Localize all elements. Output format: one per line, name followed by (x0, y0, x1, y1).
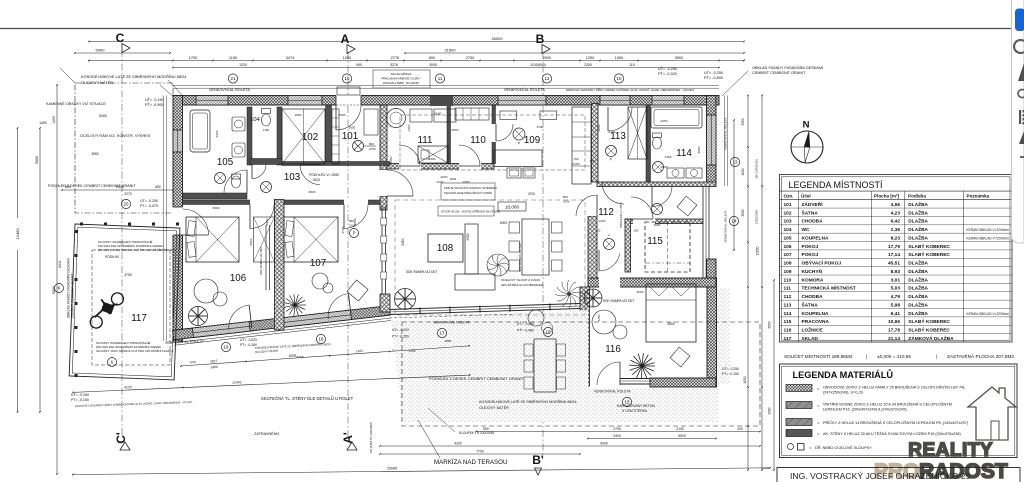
svg-text:WC: WC (802, 227, 811, 233)
svg-text:PŤ= -0,900: PŤ= -0,900 (145, 102, 163, 107)
svg-text:PODHLED Z DESEK CEMBRIT CEMBON: PODHLED Z DESEK CEMBRIT CEMBONIT GRANIT (429, 376, 525, 381)
svg-text:|: | (866, 354, 867, 359)
svg-text:1100(900): 1100(900) (530, 63, 546, 67)
svg-text:17,79: 17,79 (888, 244, 900, 250)
svg-text:3600: 3600 (213, 206, 220, 210)
svg-text:14: 14 (732, 219, 737, 224)
svg-text:106: 106 (784, 244, 792, 250)
svg-text:117: 117 (131, 313, 147, 324)
svg-text:N: N (803, 120, 810, 131)
svg-text:150: 150 (589, 159, 594, 163)
svg-text:115: 115 (784, 319, 792, 325)
svg-text:PODHLED V= 2550: PODHLED V= 2550 (309, 173, 339, 177)
svg-text:2400: 2400 (210, 365, 218, 370)
svg-text:1022: 1022 (189, 360, 196, 364)
svg-text:UT= -0,250: UT= -0,250 (704, 71, 723, 75)
svg-text:OCELOVÝ RÁM VIZ. KONSTR. VÝKRE: OCELOVÝ RÁM VIZ. KONSTR. VÝKRES (80, 134, 151, 138)
svg-text:A: A (341, 32, 350, 46)
svg-text:110: 110 (470, 135, 486, 146)
svg-text:P: P (610, 158, 612, 162)
svg-text:4200: 4200 (454, 442, 462, 446)
svg-text:UŤ= -0,020: UŤ= -0,020 (517, 321, 534, 326)
svg-text:8000: 8000 (500, 221, 507, 225)
svg-text:117: 117 (784, 336, 792, 342)
svg-text:DOSÁVKA KRBU, VIZ 200/50: DOSÁVKA KRBU, VIZ 200/50 (383, 81, 419, 85)
svg-text:25500: 25500 (387, 466, 397, 470)
svg-text:1100: 1100 (263, 128, 269, 132)
svg-text:108: 108 (437, 243, 454, 254)
svg-text:1250: 1250 (586, 56, 594, 60)
svg-text:OCELOVÝ SLOUP Z 2U100: OCELOVÝ SLOUP Z 2U100 (501, 278, 540, 282)
svg-text:200: 200 (737, 427, 743, 431)
svg-text:2000: 2000 (441, 175, 448, 179)
svg-text:1300: 1300 (407, 124, 411, 131)
svg-text:SLOUPKY JSOU NOSNOU KCÍ PRO OP: SLOUPKY JSOU NOSNOU KCÍ PRO OPLÁŠTĚNÍ FA… (96, 348, 174, 353)
svg-text:2350: 2350 (741, 118, 745, 125)
svg-text:2250: 2250 (661, 119, 668, 123)
svg-text:OBKLAD FASÁDY FASÁDNÍMI DESKAM: OBKLAD FASÁDY FASÁDNÍMI DESKAMI (752, 66, 823, 70)
svg-text:800: 800 (429, 56, 435, 60)
svg-text:21500: 21500 (444, 48, 456, 53)
svg-text:UŤ= -0,150: UŤ= -0,150 (145, 97, 164, 102)
svg-text:B': B' (532, 453, 544, 467)
svg-text:5450: 5450 (401, 238, 405, 246)
svg-text:2200: 2200 (584, 63, 592, 67)
svg-text:112: 112 (598, 207, 614, 218)
svg-text:2650: 2650 (349, 126, 356, 130)
svg-text:2750: 2750 (466, 56, 474, 60)
svg-text:SLABÝ KOBEREC: SLABÝ KOBEREC (908, 318, 950, 325)
svg-text:104: 104 (250, 117, 260, 123)
svg-text:K: K (111, 360, 114, 365)
svg-text:SLOUPKY JSOU NOSNOU KCÍ PRO OP: SLOUPKY JSOU NOSNOU KCÍ PRO OPLÁŠTĚNÍ FA… (98, 247, 176, 252)
svg-text:105: 105 (784, 235, 792, 241)
svg-text:±0,000: ±0,000 (505, 205, 519, 210)
svg-text:SKUTEČNÁ TL. STĚNY DLE DETAILŮ: SKUTEČNÁ TL. STĚNY DLE DETAILŮ U ROLET (261, 396, 354, 401)
svg-text:SLABÝ KOBEREC: SLABÝ KOBEREC (908, 243, 950, 250)
svg-text:1400: 1400 (356, 349, 363, 353)
svg-text:LEPIDLEM P15, (200x497x249) A: LEPIDLEM P15, (200x497x249) A (240x372x2… (823, 408, 907, 412)
svg-text:2700: 2700 (369, 147, 376, 151)
svg-text:SDK RAMPA VIZ DET: SDK RAMPA VIZ DET (406, 270, 438, 274)
svg-text:111: 111 (418, 135, 433, 146)
svg-text:17,78: 17,78 (888, 328, 900, 334)
svg-text:3000: 3000 (654, 223, 661, 227)
svg-text:4,56: 4,56 (891, 202, 901, 208)
svg-text:PŤ= -0,320: PŤ= -0,320 (658, 71, 677, 76)
svg-text:3950: 3950 (91, 152, 99, 156)
svg-text:2500: 2500 (116, 185, 124, 189)
svg-text:1050: 1050 (615, 56, 623, 60)
svg-text:4250: 4250 (597, 314, 601, 321)
svg-text:3700: 3700 (537, 125, 544, 129)
svg-text:4050: 4050 (743, 376, 747, 383)
svg-text:3000: 3000 (741, 209, 745, 216)
svg-text:SDK RAMPA VIZ DET: SDK RAMPA VIZ DET (518, 242, 522, 272)
svg-text:3474: 3474 (286, 56, 294, 60)
svg-text:103: 103 (284, 172, 301, 183)
svg-text:SOUČET MÍSTNOSTÍ 189,96M2: SOUČET MÍSTNOSTÍ 189,96M2 (784, 353, 853, 359)
svg-text:SLABÝ KOBEREC: SLABÝ KOBEREC (908, 327, 950, 334)
svg-text:4150: 4150 (434, 112, 442, 116)
svg-text:SLABÝ KOBEREC: SLABÝ KOBEREC (908, 251, 950, 258)
svg-text:OK RÁM TR 100/100/5: OK RÁM TR 100/100/5 (369, 422, 373, 453)
svg-text:490: 490 (356, 63, 362, 67)
svg-text:3276: 3276 (390, 63, 398, 67)
svg-text:4,79: 4,79 (891, 294, 901, 300)
svg-text:8,93: 8,93 (891, 269, 901, 275)
svg-text:DŘ. NEBO OCELOVÉ SLOUPKY: DŘ. NEBO OCELOVÉ SLOUPKY (815, 445, 872, 450)
svg-text:1300: 1300 (768, 407, 772, 414)
svg-text:1800: 1800 (295, 113, 302, 117)
svg-text:1450: 1450 (665, 155, 672, 159)
svg-text:2400: 2400 (429, 157, 436, 161)
svg-text:12460: 12460 (15, 228, 20, 240)
svg-text:2100: 2100 (676, 427, 684, 431)
svg-text:Poznámka: Poznámka (967, 193, 990, 198)
svg-text:KOSODÉLNÍKOVÉ LATĚ ZE SIBIŘSKÉ: KOSODÉLNÍKOVÉ LATĚ ZE SIBIŘSKÉHO MODŘÍNU… (479, 399, 577, 404)
svg-text:CEMBRIT CEMBONIT GRANIT: CEMBRIT CEMBONIT GRANIT (71, 273, 75, 318)
svg-text:2650: 2650 (452, 128, 459, 132)
svg-text:12443: 12443 (232, 380, 242, 384)
svg-text:1050: 1050 (463, 180, 470, 184)
svg-text:KERAM.OBKLAD V=2200mm: KERAM.OBKLAD V=2200mm (967, 236, 1010, 240)
svg-text:CHODBA: CHODBA (802, 294, 824, 300)
svg-text:1350: 1350 (599, 219, 606, 223)
svg-text:12: 12 (545, 76, 550, 81)
svg-text:OLEJOVÝ NÁTĚR: OLEJOVÝ NÁTĚR (479, 405, 509, 410)
svg-text:1700: 1700 (189, 56, 197, 60)
svg-text:VENKOVNÍ AL ROLETA: VENKOVNÍ AL ROLETA (209, 88, 250, 92)
svg-text:AK. STĚNY Z HELUZ 20 AKU TĚŽKÁ: AK. STĚNY Z HELUZ 20 AKU TĚŽKÁ S MALTOVÝ… (823, 431, 961, 436)
svg-text:17,14: 17,14 (888, 252, 900, 258)
svg-text:VENKOVNÍ AL ROLETA: VENKOVNÍ AL ROLETA (724, 118, 728, 150)
svg-text:P: P (353, 231, 356, 236)
svg-text:113: 113 (610, 131, 626, 142)
svg-text:1250: 1250 (343, 56, 351, 60)
svg-text:107: 107 (310, 258, 326, 269)
svg-text:UT= -0,020: UT= -0,020 (392, 328, 409, 332)
svg-text:KOUPELNA: KOUPELNA (802, 235, 829, 241)
svg-text:K: K (58, 286, 61, 291)
svg-text:3500: 3500 (675, 56, 683, 60)
svg-text:114: 114 (676, 148, 692, 159)
svg-text:116: 116 (784, 328, 792, 334)
svg-text:2827: 2827 (210, 359, 218, 364)
svg-text:101: 101 (342, 131, 358, 142)
svg-text:VENKOVNÍ AL ROLETA: VENKOVNÍ AL ROLETA (594, 390, 631, 394)
svg-text:18: 18 (319, 337, 324, 342)
svg-text:Ozn.: Ozn. (784, 193, 794, 198)
svg-text:4554: 4554 (249, 238, 253, 245)
svg-text:UT= -0,250: UT= -0,250 (140, 199, 158, 203)
svg-text:KERAM.OBKLAD V=2200mm: KERAM.OBKLAD V=2200mm (967, 228, 1010, 232)
svg-text:LEGENDA MÍSTNOSTÍ: LEGENDA MÍSTNOSTÍ (789, 180, 884, 190)
svg-text:1200: 1200 (437, 180, 444, 184)
svg-text:16: 16 (546, 330, 551, 335)
svg-text:ING. VOSTRACKÝ JOSEF OHRAZENI: ING. VOSTRACKÝ JOSEF OHRAZENIČKO 25 (790, 471, 971, 481)
svg-text:5400: 5400 (99, 114, 107, 118)
svg-text:PT= -0,470: PT= -0,470 (140, 204, 158, 208)
svg-text:4500: 4500 (667, 322, 675, 326)
svg-text:113: 113 (784, 302, 792, 308)
svg-text:101: 101 (784, 202, 792, 208)
svg-text:114: 114 (784, 311, 792, 317)
svg-text:|: | (936, 354, 937, 359)
svg-text:POKOJ: POKOJ (802, 252, 819, 258)
svg-text:2776: 2776 (391, 56, 399, 60)
svg-text:102: 102 (302, 132, 318, 143)
svg-text:17: 17 (440, 331, 445, 336)
svg-text:UT= -0,250: UT= -0,250 (71, 393, 89, 397)
svg-text:10,65: 10,65 (888, 319, 900, 325)
svg-text:CEMBRIT CEMBONIT GRANIT: CEMBRIT CEMBONIT GRANIT (752, 71, 806, 75)
svg-text:109: 109 (784, 269, 792, 275)
svg-text:2270: 2270 (124, 192, 132, 196)
svg-text:2700: 2700 (613, 427, 621, 431)
svg-text:8258: 8258 (289, 353, 297, 358)
svg-text:5450: 5450 (389, 156, 393, 163)
svg-text:9300: 9300 (35, 156, 39, 164)
svg-text:5934: 5934 (265, 218, 269, 225)
svg-text:106: 106 (230, 273, 247, 284)
svg-text:OPLÁŠTĚNÍ ALUCOBONDEM: OPLÁŠTĚNÍ ALUCOBONDEM (501, 282, 544, 287)
svg-text:850: 850 (65, 185, 71, 189)
svg-text:10: 10 (345, 76, 350, 81)
svg-text:105: 105 (217, 157, 234, 168)
svg-text:5,98: 5,98 (891, 302, 901, 308)
svg-text:109: 109 (524, 135, 540, 146)
svg-text:2000: 2000 (543, 56, 551, 60)
svg-text:1450: 1450 (52, 116, 56, 124)
svg-text:21,14: 21,14 (888, 336, 900, 342)
svg-text:20: 20 (124, 202, 129, 207)
svg-text:PRACOVNA: PRACOVNA (802, 319, 830, 325)
svg-text:21: 21 (231, 76, 236, 81)
svg-text:4225: 4225 (124, 385, 132, 389)
svg-text:5100: 5100 (313, 178, 320, 182)
svg-text:CHODBA: CHODBA (802, 219, 824, 225)
svg-text:A': A' (341, 432, 355, 444)
svg-text:1000: 1000 (741, 168, 745, 175)
svg-text:1320: 1320 (239, 63, 247, 67)
svg-text:±0,000 = 410,55: ±0,000 = 410,55 (877, 354, 911, 359)
svg-text:UT= -0,250: UT= -0,250 (722, 367, 739, 371)
svg-text:5500: 5500 (678, 434, 686, 438)
svg-text:PT= -0,800: PT= -0,800 (704, 76, 723, 80)
svg-text:PŘÍČKY Z HELUZ 14 BROUŠENÁ S C: PŘÍČKY Z HELUZ 14 BROUŠENÁ S CELOPLOŠNÝM… (823, 420, 969, 425)
svg-text:2,36: 2,36 (891, 227, 901, 233)
svg-text:B: B (536, 32, 545, 46)
svg-text:Podlaha: Podlaha (908, 193, 926, 198)
svg-text:C: C (116, 31, 125, 45)
svg-text:700: 700 (573, 157, 578, 161)
svg-text:KERAM.OBKLAD V=2200mm: KERAM.OBKLAD V=2200mm (967, 312, 1010, 316)
svg-text:1450: 1450 (39, 121, 47, 125)
svg-text:18: 18 (224, 345, 229, 350)
svg-text:5800: 5800 (52, 286, 56, 294)
svg-text:SDK RAMPA VIZ DET: SDK RAMPA VIZ DET (259, 246, 263, 275)
svg-text:5400: 5400 (96, 48, 106, 53)
svg-text:OLEJOVÝ NÁTĚR: OLEJOVÝ NÁTĚR (81, 80, 113, 85)
svg-text:VENKOVNÍ AL ROLETA: VENKOVNÍ AL ROLETA (433, 321, 470, 325)
svg-text:MARKÍZA NAD TERASOU: MARKÍZA NAD TERASOU (434, 459, 507, 466)
svg-text:6441: 6441 (58, 260, 62, 268)
svg-text:VENKOVNÍ AL ROLETA: VENKOVNÍ AL ROLETA (724, 211, 728, 243)
svg-text:800: 800 (369, 142, 374, 146)
svg-text:ZATRAVNĚNO: ZATRAVNĚNO (254, 431, 279, 436)
svg-text:2300: 2300 (215, 130, 219, 137)
svg-text:DRIPOVÉ CHODNÍKY ŠÍŘKY 400MM,: DRIPOVÉ CHODNÍKY ŠÍŘKY 400MM, KAČÍREK 32… (566, 87, 695, 92)
svg-text:5,03: 5,03 (891, 286, 901, 292)
svg-text:650: 650 (155, 185, 161, 189)
svg-text:5556: 5556 (353, 218, 357, 225)
svg-text:PT= -0,250: PT= -0,250 (392, 335, 409, 339)
svg-text:Účel: Účel (801, 192, 811, 198)
svg-text:11: 11 (438, 76, 443, 81)
svg-text:3000: 3000 (637, 290, 644, 294)
svg-text:POKOJ: POKOJ (802, 244, 819, 250)
svg-text:ZASTAVĚNÁ PLOCHA 207,8M2: ZASTAVĚNÁ PLOCHA 207,8M2 (947, 352, 1014, 359)
svg-text:2650: 2650 (597, 124, 601, 131)
svg-text:KOMORA: KOMORA (802, 277, 824, 283)
svg-text:KOSODÉLNÍKOVÉ LATĚ ZE SIBIŘSKÉ: KOSODÉLNÍKOVÉ LATĚ ZE SIBIŘSKÉHO MODŘÍNU… (81, 74, 187, 79)
svg-text:45,51: 45,51 (888, 261, 900, 267)
svg-text:1250(1100): 1250(1100) (755, 210, 759, 224)
svg-text:PÓDIUM: PÓDIUM (105, 254, 119, 259)
svg-text:4782: 4782 (341, 226, 345, 233)
svg-text:500: 500 (483, 427, 489, 431)
svg-text:Plocha [m²]: Plocha [m²] (874, 193, 899, 198)
svg-text:5050: 5050 (768, 321, 772, 328)
svg-text:107: 107 (784, 252, 792, 258)
svg-text:SDK RAMPA VIZ DET: SDK RAMPA VIZ DET (603, 299, 635, 303)
svg-text:SKLAD: SKLAD (802, 336, 819, 342)
svg-text:13: 13 (733, 160, 738, 165)
svg-text:3800: 3800 (309, 190, 316, 194)
svg-text:S CEM ŠTĚRKA: S CEM ŠTĚRKA (622, 408, 648, 413)
svg-text:2050: 2050 (339, 113, 346, 117)
svg-text:110: 110 (784, 277, 792, 283)
svg-text:VENKOVNÍ AL ROLETA: VENKOVNÍ AL ROLETA (504, 88, 545, 92)
svg-text:PT= -0,150: PT= -0,150 (71, 398, 89, 402)
svg-text:2100: 2100 (573, 162, 580, 166)
svg-text:OBVODOVÉ ZDIVO Z HELUZ FAMILY: OBVODOVÉ ZDIVO Z HELUZ FAMILY 25 BROUŠEN… (823, 385, 965, 390)
svg-text:800: 800 (563, 195, 568, 199)
svg-text:SKLAD DŘEVA: SKLAD DŘEVA (391, 71, 412, 76)
svg-text:2002: 2002 (450, 177, 457, 181)
svg-text:REALITY: REALITY (908, 440, 993, 461)
svg-text:4,23: 4,23 (891, 210, 901, 216)
svg-text:C': C' (114, 432, 128, 444)
svg-text:(247x250x249), U=0,29: (247x250x249), U=0,29 (823, 391, 863, 395)
svg-text:KOUPELNA: KOUPELNA (802, 311, 829, 317)
svg-text:UT= -0,020: UT= -0,020 (240, 338, 257, 342)
svg-text:8258: 8258 (297, 355, 304, 359)
svg-text:111: 111 (784, 286, 792, 292)
svg-text:3000: 3000 (429, 63, 437, 67)
svg-text:12850: 12850 (756, 246, 760, 255)
svg-text:KAMENNÉ OBSEKY VIZ SITUACE: KAMENNÉ OBSEKY VIZ SITUACE (46, 101, 106, 106)
svg-text:7700: 7700 (476, 450, 484, 454)
svg-text:UŤ= -0,250: UŤ= -0,250 (658, 66, 677, 71)
svg-text:115: 115 (647, 236, 663, 247)
svg-text:150 1250(1100): 150 1250(1100) (755, 159, 759, 179)
svg-text:150: 150 (634, 229, 639, 233)
svg-text:2400: 2400 (613, 434, 621, 438)
svg-text:KARTÁČOVANÝ BETON: KARTÁČOVANÝ BETON (617, 403, 655, 408)
svg-text:103: 103 (784, 219, 792, 225)
svg-text:9000: 9000 (600, 442, 608, 446)
svg-text:8,23: 8,23 (891, 235, 901, 241)
svg-text:PT= -0,150: PT= -0,150 (722, 372, 739, 376)
svg-text:VNITŘNÍ NOSNÉ ZDIVO Z HELUZ 20: VNITŘNÍ NOSNÉ ZDIVO Z HELUZ 20 A 24 BROU… (823, 402, 952, 407)
svg-text:4865: 4865 (445, 339, 452, 343)
svg-text:5300: 5300 (466, 233, 470, 240)
svg-text:3000: 3000 (661, 165, 668, 169)
svg-text:3700: 3700 (528, 192, 535, 196)
svg-text:110: 110 (629, 63, 635, 67)
svg-text:104: 104 (784, 227, 792, 233)
svg-text:1150: 1150 (229, 56, 237, 60)
svg-text:6,42: 6,42 (891, 219, 901, 225)
svg-text:26000: 26000 (491, 36, 503, 41)
svg-text:PODHLED V= 2550: PODHLED V= 2550 (619, 202, 623, 228)
svg-text:LEGENDA MATERIÁLŮ: LEGENDA MATERIÁLŮ (793, 369, 894, 380)
svg-text:3850: 3850 (697, 146, 701, 153)
svg-text:10: 10 (617, 76, 622, 81)
svg-text:P: P (518, 142, 520, 146)
svg-text:6,41: 6,41 (891, 311, 901, 317)
svg-text:108: 108 (784, 261, 792, 267)
svg-text:116: 116 (605, 344, 621, 355)
svg-text:3750: 3750 (124, 273, 132, 277)
svg-text:102: 102 (784, 210, 792, 216)
svg-text:112: 112 (784, 294, 792, 300)
svg-text:3,01: 3,01 (891, 277, 901, 283)
svg-text:PŤ= -0,480: PŤ= -0,480 (517, 328, 534, 333)
